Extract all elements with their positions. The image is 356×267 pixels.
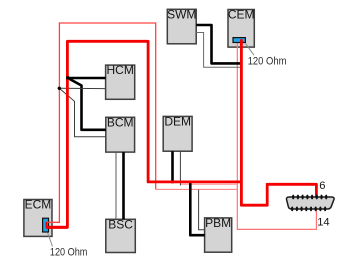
svg-text:14: 14	[317, 216, 329, 228]
wire PBM thick drop	[190, 181, 205, 235]
wire CAN-H main loop thick red	[46, 41, 241, 227]
module PBM	[205, 216, 232, 252]
resistor 120 Ohm in ECM	[43, 218, 49, 232]
wire DEM thick drop	[171, 151, 174, 183]
wire CAN-L branch P1 (DEM tap across to CEM drop)	[180, 183, 237, 185]
wire DEM thin drop	[179, 151, 181, 185]
connector bottom pins	[291, 207, 326, 212]
module SWM	[167, 7, 196, 43]
leader line CEM resistor	[246, 44, 255, 56]
module BSC	[106, 217, 136, 252]
svg-text:120 Ohm: 120 Ohm	[248, 56, 287, 68]
wire CAN-L CEM drop down to DLC pin 14	[237, 41, 316, 229]
leader line ECM resistor	[48, 233, 53, 247]
svg-text:120 Ohm: 120 Ohm	[50, 246, 88, 258]
module CEM	[228, 8, 255, 48]
svg-text:HCM: HCM	[106, 63, 133, 77]
svg-text:PBM: PBM	[205, 216, 231, 230]
wire CAN-H notch into CEM resistor	[240, 39, 243, 44]
wire HCM thick black	[68, 77, 106, 80]
node junction dot 1	[66, 76, 70, 80]
connector top pins	[292, 195, 327, 200]
module DEM	[163, 115, 192, 152]
svg-text:SWM: SWM	[167, 7, 196, 21]
wire BCM thin black branch	[59, 88, 105, 136]
wire CAN-H CEM drop to DLC pin 6	[241, 41, 316, 205]
wire BCM-BSC thin	[115, 152, 117, 219]
svg-text:DEM: DEM	[164, 115, 191, 129]
wire BCM-BSC thick	[122, 152, 125, 219]
wire SWM thick black	[196, 25, 242, 63]
wire PBM thin drop	[199, 190, 205, 230]
module ECM	[24, 198, 52, 237]
module BCM	[106, 115, 135, 152]
svg-text:BCM: BCM	[107, 115, 134, 129]
wire BCM thick black branch	[68, 78, 106, 130]
svg-text:6: 6	[319, 180, 325, 192]
resistor 120 Ohm in CEM	[233, 38, 245, 43]
wire HCM thin black	[59, 87, 105, 89]
wire CAN-L loop thin red: ECM up, across top, down to P2 corner	[46, 23, 156, 222]
svg-text:CEM: CEM	[228, 8, 255, 22]
connector DLC (OBD-II)	[286, 195, 334, 212]
wire red hook into ECM resistor	[46, 221, 60, 223]
node junction dot 2	[58, 87, 61, 90]
module HCM	[106, 63, 135, 99]
wire SWM thin gray	[196, 33, 240, 68]
svg-text:ECM: ECM	[25, 198, 52, 212]
svg-text:BSC: BSC	[108, 217, 133, 231]
wire CAN-L branch P2 (loop corner to CEM drop)	[156, 188, 238, 190]
